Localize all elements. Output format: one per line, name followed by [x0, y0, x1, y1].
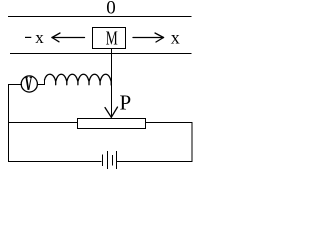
left arrow — [52, 33, 85, 42]
left vertical wire — [8, 85, 10, 162]
svg-text:x: x — [35, 28, 44, 47]
voltmeter letter V — [25, 77, 32, 90]
wire from M down to wiper P — [111, 49, 113, 118]
svg-text:M: M — [106, 28, 118, 50]
wire voltmeter to coil — [38, 80, 45, 85]
voltmeter circle — [21, 76, 37, 92]
bottom rail wire left of battery — [9, 161, 102, 163]
battery cell plate long 2 — [116, 152, 118, 169]
battery cell plate long 1 — [107, 152, 109, 169]
battery cell plate short 1 — [102, 155, 104, 166]
wiper arrowhead at P — [105, 107, 118, 117]
label -x minus stroke — [25, 36, 31, 38]
svg-text:P: P — [120, 91, 132, 115]
right arrow — [133, 33, 164, 42]
battery cell plate short 2 — [112, 156, 114, 166]
wire rheostat right — [146, 122, 193, 124]
lower rail — [11, 53, 192, 55]
inductor coil — [45, 74, 112, 85]
svg-text:0: 0 — [106, 0, 116, 19]
rheostat box — [78, 119, 146, 129]
wire to rheostat left — [9, 122, 78, 124]
block M box — [93, 28, 126, 49]
svg-text:x: x — [171, 27, 180, 47]
wire left of voltmeter — [9, 84, 22, 86]
bottom rail wire right of battery — [118, 161, 193, 163]
right vertical wire — [191, 123, 193, 162]
top rail (position axis) — [9, 16, 192, 18]
